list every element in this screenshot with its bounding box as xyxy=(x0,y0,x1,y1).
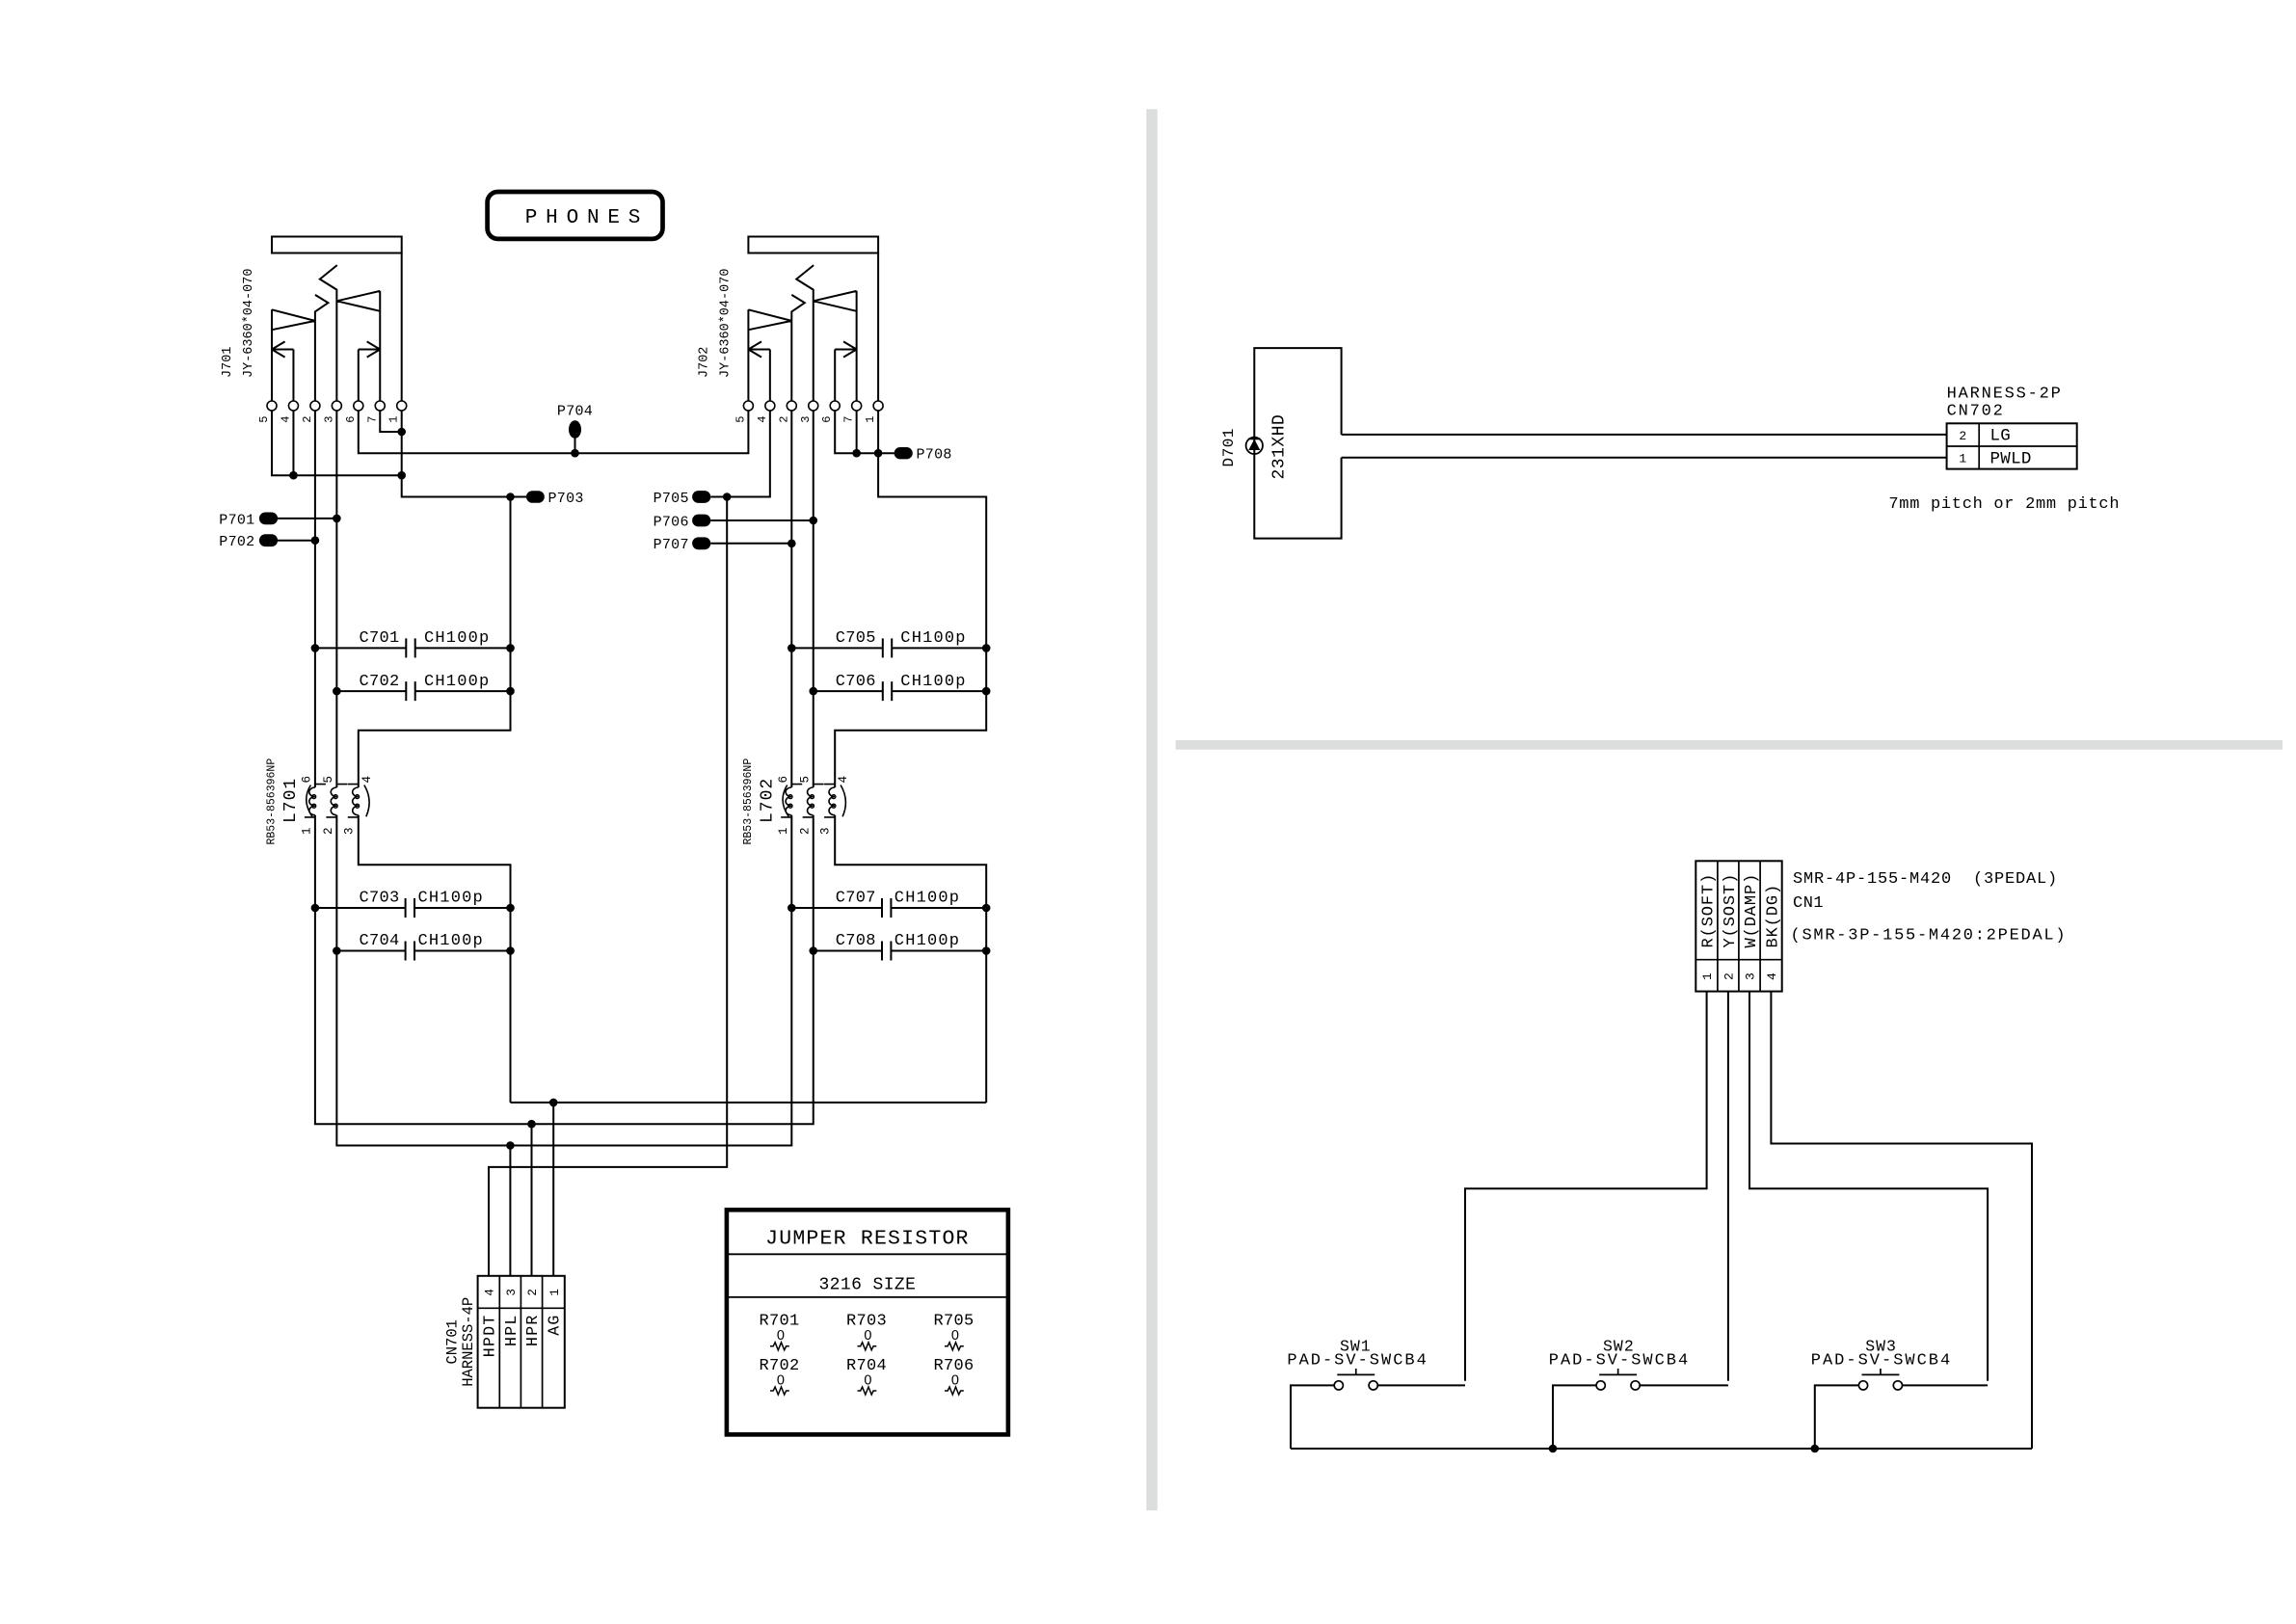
svg-text:3: 3 xyxy=(1744,972,1758,980)
svg-text:1: 1 xyxy=(301,827,314,835)
svg-text:4: 4 xyxy=(360,776,374,784)
svg-text:4: 4 xyxy=(756,415,769,423)
svg-text:7: 7 xyxy=(842,415,856,423)
svg-text:5: 5 xyxy=(257,415,271,423)
svg-text:SMR-4P-155-M420 (3PEDAL): SMR-4P-155-M420 (3PEDAL) xyxy=(1793,870,2058,889)
svg-text:HPR: HPR xyxy=(523,1314,542,1346)
svg-text:P704: P704 xyxy=(557,403,593,419)
svg-text:J702: J702 xyxy=(697,347,711,378)
svg-text:3: 3 xyxy=(819,827,833,835)
svg-text:R(SOFT): R(SOFT) xyxy=(1700,873,1719,948)
svg-text:6: 6 xyxy=(777,776,790,784)
svg-text:0: 0 xyxy=(864,1372,871,1388)
svg-text:1: 1 xyxy=(387,415,401,423)
svg-text:PAD-SV-SWCB4: PAD-SV-SWCB4 xyxy=(1549,1351,1690,1370)
svg-text:CH100p: CH100p xyxy=(900,673,966,691)
svg-text:P708: P708 xyxy=(917,447,952,464)
svg-text:W(DAMP): W(DAMP) xyxy=(1743,873,1761,948)
svg-text:C701: C701 xyxy=(359,629,399,648)
svg-text:CN702: CN702 xyxy=(1947,402,2005,420)
svg-text:L702: L702 xyxy=(758,778,777,823)
svg-text:0: 0 xyxy=(951,1372,959,1388)
svg-text:2: 2 xyxy=(301,415,314,423)
svg-text:5: 5 xyxy=(798,776,812,784)
svg-text:(SMR-3P-155-M420:2PEDAL): (SMR-3P-155-M420:2PEDAL) xyxy=(1791,926,2068,945)
svg-text:6: 6 xyxy=(820,415,834,423)
svg-text:JY-6360*04-070: JY-6360*04-070 xyxy=(242,269,256,378)
svg-text:4: 4 xyxy=(837,776,850,784)
svg-text:CH100p: CH100p xyxy=(418,890,484,908)
svg-text:0: 0 xyxy=(864,1328,871,1344)
svg-text:CH100p: CH100p xyxy=(900,629,966,648)
svg-text:CH100p: CH100p xyxy=(424,673,490,691)
svg-text:1: 1 xyxy=(864,415,877,423)
svg-text:C707: C707 xyxy=(836,890,876,908)
svg-text:P702: P702 xyxy=(219,534,254,550)
svg-text:0: 0 xyxy=(951,1328,959,1344)
svg-text:HPDT: HPDT xyxy=(481,1314,499,1357)
svg-text:Y(SOST): Y(SOST) xyxy=(1722,873,1740,948)
svg-text:J701: J701 xyxy=(221,347,235,378)
svg-text:6: 6 xyxy=(344,415,358,423)
svg-text:PWLD: PWLD xyxy=(1990,450,2032,469)
svg-text:2: 2 xyxy=(1959,429,1966,443)
svg-text:5: 5 xyxy=(734,415,747,423)
svg-text:PAD-SV-SWCB4: PAD-SV-SWCB4 xyxy=(1287,1351,1428,1370)
svg-text:4: 4 xyxy=(279,415,292,423)
svg-text:7mm pitch or 2mm pitch: 7mm pitch or 2mm pitch xyxy=(1888,495,2120,514)
svg-text:P705: P705 xyxy=(654,491,689,507)
svg-text:3: 3 xyxy=(505,1289,519,1296)
svg-text:2: 2 xyxy=(777,415,790,423)
svg-text:C705: C705 xyxy=(836,629,876,648)
svg-text:2: 2 xyxy=(526,1289,540,1296)
svg-text:C708: C708 xyxy=(836,932,876,950)
svg-text:C704: C704 xyxy=(359,932,399,950)
svg-text:3: 3 xyxy=(322,415,335,423)
svg-text:CH100p: CH100p xyxy=(418,932,484,950)
svg-text:P707: P707 xyxy=(654,537,689,553)
svg-text:C706: C706 xyxy=(836,673,876,691)
svg-text:PAD-SV-SWCB4: PAD-SV-SWCB4 xyxy=(1811,1351,1952,1370)
svg-text:HARNESS-2P: HARNESS-2P xyxy=(1947,385,2063,403)
svg-text:C703: C703 xyxy=(359,890,399,908)
svg-text:3: 3 xyxy=(342,827,356,835)
svg-text:CH100p: CH100p xyxy=(894,890,960,908)
svg-text:CH100p: CH100p xyxy=(894,932,960,950)
svg-text:3: 3 xyxy=(799,415,813,423)
svg-text:6: 6 xyxy=(301,776,314,784)
svg-text:CH100p: CH100p xyxy=(424,629,490,648)
svg-text:JUMPER RESISTOR: JUMPER RESISTOR xyxy=(765,1228,970,1251)
svg-text:RB53-856396NP: RB53-856396NP xyxy=(266,759,279,845)
svg-text:C702: C702 xyxy=(359,673,399,691)
svg-text:1: 1 xyxy=(1700,972,1715,980)
svg-text:BK(DG): BK(DG) xyxy=(1764,884,1782,948)
svg-text:2: 2 xyxy=(1722,972,1737,980)
svg-text:P706: P706 xyxy=(654,514,689,530)
svg-text:PHONES: PHONES xyxy=(525,207,649,229)
svg-text:LG: LG xyxy=(1990,427,2012,446)
svg-text:RB53-856396NP: RB53-856396NP xyxy=(742,759,755,845)
svg-text:7: 7 xyxy=(365,415,379,423)
svg-text:2: 2 xyxy=(322,827,335,835)
svg-text:231XHD: 231XHD xyxy=(1270,414,1290,480)
svg-text:AG: AG xyxy=(546,1314,564,1335)
svg-text:4: 4 xyxy=(1765,972,1779,980)
svg-text:HPL: HPL xyxy=(502,1314,521,1346)
svg-text:CN701: CN701 xyxy=(444,1319,462,1365)
svg-text:3216 SIZE: 3216 SIZE xyxy=(818,1275,916,1294)
svg-text:1: 1 xyxy=(548,1289,562,1296)
svg-text:P703: P703 xyxy=(548,491,584,507)
svg-text:2: 2 xyxy=(798,827,812,835)
svg-text:L701: L701 xyxy=(281,778,301,823)
svg-text:0: 0 xyxy=(777,1372,785,1388)
svg-text:1: 1 xyxy=(1959,452,1966,466)
svg-text:0: 0 xyxy=(777,1328,785,1344)
svg-text:CN1: CN1 xyxy=(1793,894,1824,913)
svg-text:D701: D701 xyxy=(1220,428,1238,466)
svg-text:5: 5 xyxy=(322,776,335,784)
svg-text:JY-6360*04-070: JY-6360*04-070 xyxy=(718,269,733,378)
svg-text:4: 4 xyxy=(484,1289,497,1296)
svg-text:HARNESS-4P: HARNESS-4P xyxy=(460,1297,477,1387)
svg-text:P701: P701 xyxy=(219,512,254,528)
svg-text:1: 1 xyxy=(777,827,790,835)
